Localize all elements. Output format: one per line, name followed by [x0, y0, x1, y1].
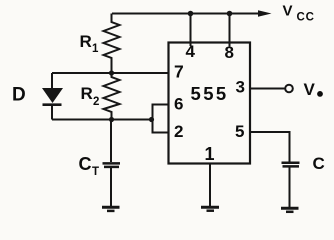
svg-text:3: 3 [236, 78, 245, 97]
svg-text:4: 4 [186, 42, 196, 61]
junction pin8 on rail [227, 11, 233, 17]
wire pins 6-2 tie bracket [153, 105, 169, 133]
ground (pin 1) [201, 207, 219, 211]
wire diode cathode to trigger bracket (y=119.5) [52, 119, 153, 121]
capacitor CT label [79, 154, 100, 178]
svg-text:CC: CC [297, 12, 315, 24]
junction pin4 on rail [188, 11, 194, 17]
output terminal circle [285, 85, 293, 93]
svg-text:2: 2 [93, 96, 99, 108]
wire Vcc top rail [112, 13, 259, 15]
svg-text:1: 1 [205, 144, 215, 164]
svg-text:R: R [80, 32, 92, 51]
svg-text:V: V [283, 3, 293, 20]
svg-text:D: D [12, 85, 26, 106]
wire pin 7 / diode anode (y=73) [52, 72, 169, 74]
output Vo label [304, 80, 323, 99]
svg-text:R: R [81, 84, 93, 103]
svg-text:C: C [79, 154, 92, 174]
svg-text:C: C [313, 154, 325, 173]
Vcc arrow [258, 10, 272, 16]
resistor R2 label [81, 84, 100, 108]
wire pin 1 ground lead [209, 164, 211, 207]
capacitor CT [103, 120, 121, 207]
svg-text:1: 1 [92, 43, 99, 55]
wire pin 3 output [250, 88, 285, 90]
svg-text:5: 5 [235, 122, 244, 141]
ground (C) [281, 208, 299, 212]
node A junction R1/R2/pin7 [109, 70, 114, 75]
svg-text:V: V [304, 80, 316, 99]
svg-text:2: 2 [174, 122, 183, 141]
resistor R1 label [80, 32, 100, 55]
capacitor C [282, 163, 300, 207]
svg-text:555: 555 [191, 83, 229, 104]
resistor R2 [104, 73, 120, 120]
wire pin 4 drop [190, 14, 192, 47]
svg-text:6: 6 [174, 95, 183, 114]
svg-text:T: T [92, 166, 99, 178]
junction trigger/threshold tie [149, 117, 154, 122]
svg-text:8: 8 [225, 43, 234, 62]
wire pin 5 to capacitor C [250, 132, 290, 162]
resistor R1 [104, 14, 120, 74]
svg-text:7: 7 [174, 62, 184, 82]
diode D [42, 73, 63, 120]
node B junction R2/CT [109, 117, 114, 122]
ground (CT) [102, 207, 120, 211]
op IC U1 555 timer body [169, 43, 251, 164]
wire pin 8 drop [229, 14, 231, 47]
supply Vcc label [283, 3, 315, 24]
